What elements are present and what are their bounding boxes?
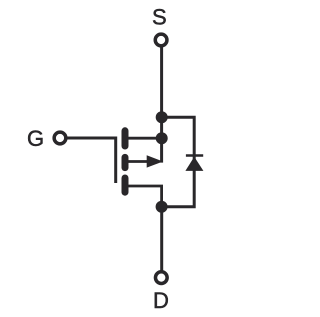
terminal pin D (open circle) (155, 272, 167, 284)
MOSFET Q1 channel bar: drain segment (122, 178, 129, 192)
diode D1 anode triangle (185, 157, 203, 171)
MOSFET Q1 source contact stub (125, 137, 162, 140)
MOSFET Q1 body arrow (points to channel: p-channel) (147, 155, 163, 167)
svg-text:S: S (152, 4, 167, 29)
wire: body-diode branch (right loop) (161, 117, 194, 207)
diode D1 cathode bar (186, 154, 203, 156)
MOSFET Q1 body stub (125, 160, 149, 163)
terminal pin G (open circle) (54, 132, 66, 144)
MOSFET Q1 channel bar: body segment (122, 157, 129, 167)
wire: gate lead and gate electrode (67, 138, 116, 183)
terminal pin S (open circle) (155, 34, 167, 46)
svg-text:D: D (153, 288, 169, 313)
junction node: source / diode tap (156, 111, 168, 123)
MOSFET Q1 channel bar: source segment (122, 131, 129, 146)
wire: drain node to D terminal (vertical) (160, 207, 163, 271)
wire: source terminal to MOSFET (vertical) (160, 46, 163, 163)
junction node: source contact / body tie (156, 132, 168, 144)
svg-text:G: G (27, 126, 44, 151)
junction node: drain / diode anode (156, 201, 168, 213)
wire: drain stub to drain node (125, 186, 162, 207)
